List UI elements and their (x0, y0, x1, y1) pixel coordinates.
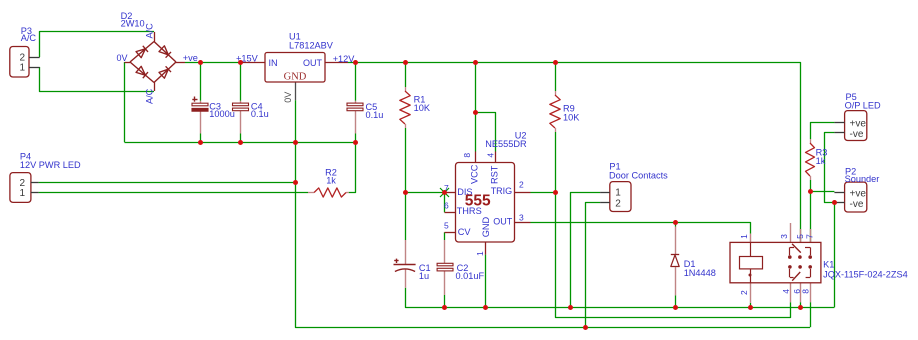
svg-text:TRIG: TRIG (491, 186, 513, 196)
connector P4 12V PWR LED (10, 151, 81, 202)
wire RST pin4 L-shape to VCC net (475, 113, 495, 152)
svg-text:-ve: -ve (850, 199, 864, 210)
svg-text:JQX-115F-024-2ZS4: JQX-115F-024-2ZS4 (823, 270, 908, 280)
connector P2 Sounder (834, 167, 879, 213)
svg-text:0V: 0V (116, 53, 127, 63)
wire 555 GND pin1 to rail A (485, 255, 487, 308)
connector P5 O/P LED (834, 92, 881, 141)
wire P1 pin2 to rail C (586, 203, 601, 328)
svg-text:L7812ABV: L7812ABV (289, 41, 334, 51)
svg-text:5: 5 (444, 221, 449, 231)
wire C3 column (200, 63, 202, 101)
svg-text:4: 4 (486, 153, 496, 158)
capacitor C3 1000u (192, 97, 235, 134)
wire relay pin5 feed (800, 224, 802, 243)
svg-text:A/C: A/C (145, 88, 155, 104)
wire R3 bottom to P2 +ve and relay pin7 (810, 180, 812, 242)
wire DIS net horizontal (405, 192, 445, 194)
svg-text:2: 2 (615, 198, 621, 209)
junction dots rail A (442, 305, 803, 310)
svg-text:K1: K1 (823, 260, 834, 270)
svg-text:2W10: 2W10 (121, 19, 145, 29)
wire ground rail 0V (125, 142, 356, 144)
wire relay pin6 to rail A (800, 302, 802, 307)
svg-text:10K: 10K (414, 103, 431, 113)
wire top rail +ve to U1 IN (185, 62, 241, 64)
svg-text:1: 1 (20, 63, 26, 74)
svg-text:OUT: OUT (493, 217, 513, 227)
wire OUT net to relay coil pin1 (531, 223, 751, 234)
wire bridge 0V left down to ground rail (124, 62, 126, 142)
wire C5 column (355, 63, 357, 101)
svg-text:1N4448: 1N4448 (684, 268, 716, 278)
svg-text:12V PWR LED: 12V PWR LED (20, 160, 81, 170)
wire 0V column from ground rail down to rail C (296, 142, 811, 327)
svg-text:-ve: -ve (850, 129, 864, 140)
svg-text:VCC: VCC (469, 164, 479, 184)
svg-text:+ve: +ve (850, 189, 867, 200)
wire R2 right up to ground rail (349, 142, 356, 192)
junction star at DIS (440, 188, 449, 197)
svg-text:+ve: +ve (183, 53, 198, 63)
svg-text:OUT: OUT (303, 58, 323, 68)
timer U2 NE555DR (444, 131, 531, 257)
wire C2 bottom to rail A (444, 295, 446, 307)
capacitor C5 0.1u (347, 101, 383, 134)
wire TRIG to R9 junction (531, 192, 556, 194)
svg-text:1: 1 (20, 188, 26, 199)
wire TRIG net down to rail B to relay pin4 (556, 192, 791, 317)
svg-text:8: 8 (801, 289, 811, 294)
wire relay pin2 to rail A (750, 303, 752, 307)
junction dot RST net (473, 110, 478, 115)
resistor R3 1k (806, 139, 828, 180)
svg-text:GND: GND (481, 217, 491, 238)
svg-text:NE555DR: NE555DR (485, 139, 527, 149)
svg-text:O/P LED: O/P LED (845, 101, 881, 111)
relay K1 JQX-115F-024-2ZS4 (730, 223, 908, 303)
bridge rectifier D2 2W10 (116, 11, 197, 104)
svg-text:3: 3 (519, 213, 524, 223)
wire CV down to C2 (444, 232, 446, 240)
wire P5 -ve to P2 -ve junction (825, 133, 835, 203)
svg-text:10K: 10K (563, 113, 580, 123)
wire C4 column (240, 63, 242, 101)
wire P5 +ve to R3 top (811, 123, 835, 140)
svg-text:+12V: +12V (333, 54, 356, 64)
resistor R2 1k (308, 167, 349, 197)
svg-text:Sounder: Sounder (845, 174, 880, 184)
wire P3 pin2 to bridge AC top (40, 32, 155, 58)
svg-text:8: 8 (462, 153, 472, 158)
wire P4 pin2 to 0V column (39, 182, 295, 184)
connector P3 A/C (10, 26, 40, 77)
svg-text:CV: CV (458, 227, 472, 237)
junction dot DIS/THRS (442, 190, 447, 195)
connector P1 Door Contacts (600, 161, 668, 211)
capacitor C2 0.01uF (437, 240, 484, 295)
svg-text:7: 7 (805, 234, 815, 239)
wire rail C up to relay pin8 (810, 302, 812, 327)
wire P3 pin1 to bridge AC bottom (40, 67, 155, 92)
junction dot rail C P1 pin2 (583, 325, 588, 330)
svg-text:Door Contacts: Door Contacts (609, 171, 668, 181)
svg-text:IN: IN (269, 58, 278, 68)
wire P1 pin1 to rail A (571, 193, 601, 308)
diode D1 1N4448 (671, 227, 716, 296)
junction dot R3 bottom (808, 189, 813, 194)
svg-text:0.1u: 0.1u (366, 110, 384, 120)
wire top rail +12V from U1 OUT to relay pin5 corner (348, 63, 801, 224)
svg-text:RST: RST (489, 165, 499, 184)
wire R1 column from +12V rail to DIS net and C1 (405, 63, 407, 88)
wire D1 taps (675, 222, 677, 226)
wire rail A up to sounder -ve (834, 202, 836, 307)
svg-text:1k: 1k (326, 176, 336, 186)
capacitor C4 0.1u (233, 101, 269, 134)
svg-text:0.01uF: 0.01uF (456, 271, 485, 281)
svg-text:4: 4 (781, 289, 791, 294)
svg-text:3: 3 (779, 234, 789, 239)
svg-text:A/C: A/C (21, 33, 37, 43)
junction dots ground rail (198, 140, 358, 145)
svg-text:5: 5 (795, 234, 805, 239)
svg-text:2: 2 (739, 290, 749, 295)
junction dot D1 top (673, 220, 678, 225)
svg-text:A/C: A/C (145, 23, 155, 39)
junction dot P4 pin2 (293, 180, 298, 185)
junction dot R1/DIS (403, 190, 408, 195)
svg-text:1u: 1u (419, 271, 429, 281)
svg-text:0V: 0V (283, 92, 293, 103)
wire R9 column (555, 63, 557, 92)
regulator U1 L7812ABV (241, 31, 348, 103)
svg-text:1: 1 (475, 251, 485, 256)
junction dot TRIG/R9 (553, 190, 558, 195)
svg-text:1: 1 (739, 234, 749, 239)
wire U1 GND down to ground rail (295, 100, 297, 142)
junction dot P2 -ve (832, 200, 837, 205)
wire P4 pin1 to R2 (39, 192, 308, 194)
svg-text:6: 6 (444, 201, 449, 211)
wire DIS to THRS tie (444, 192, 446, 212)
wire C1 bottom to rail A (406, 288, 835, 308)
wire VCC pin8 to +12V rail (475, 63, 477, 152)
junction dots top rail (198, 60, 558, 65)
svg-text:555: 555 (465, 193, 491, 210)
svg-text:1000u: 1000u (209, 109, 235, 119)
svg-text:GND: GND (284, 72, 307, 83)
svg-text:1k: 1k (816, 156, 826, 166)
svg-text:1: 1 (615, 188, 621, 199)
svg-text:2: 2 (519, 180, 524, 190)
capacitor C1 1u polarized (394, 240, 431, 288)
svg-text:+ve: +ve (850, 119, 867, 130)
resistor R9 10K (550, 91, 580, 132)
svg-text:0.1u: 0.1u (251, 109, 269, 119)
resistor R1 10K (400, 87, 431, 128)
